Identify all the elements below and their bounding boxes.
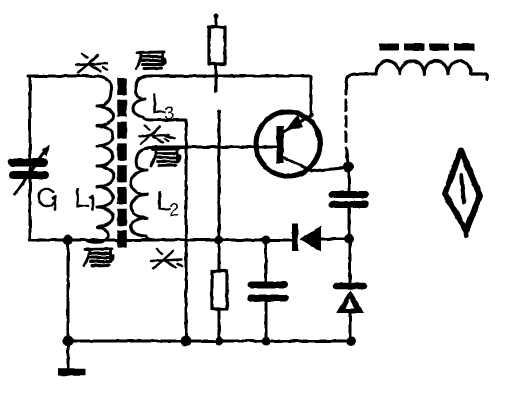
ferrite core (dashed bar) (117, 78, 127, 248)
label 头 (head) middle (139, 125, 175, 143)
earphone iron core (dashed bar) (379, 44, 474, 51)
label 尾 (tail) bottom (84, 249, 113, 266)
node junction at (68,240) (63, 235, 73, 245)
wire earphone corner to coil (346, 74, 376, 84)
diode D1 (detector, pointing left) cathode bar (292, 224, 298, 251)
inductor L2 (base coupling coil) (131, 147, 158, 240)
node junction at (266,240) (262, 236, 271, 245)
label 头 (head) top-left (76, 54, 107, 73)
label 头 (head) bottom (151, 250, 182, 269)
node junction at (219,240) (215, 236, 224, 245)
node junction at (348,167) (343, 162, 354, 173)
earphone diamond inner mark (461, 175, 464, 202)
resistor R2 (bottom) (218, 240, 221, 271)
capacitor C1 bottom plate (13, 171, 45, 179)
node junction at (186,341) (181, 336, 192, 347)
diode D2 (vertical) lead (349, 239, 352, 284)
capacitor C3 bottom plate (251, 295, 285, 302)
capacitor C1 (variable) top plate (12, 159, 44, 167)
wire top-left horizontal (28, 75, 98, 78)
wire mid rail (tank bottom to detector) (30, 239, 292, 242)
svg-text:2: 2 (169, 200, 179, 220)
transistor Q1 emitter (arrow toward base) (283, 115, 312, 132)
diode D2 triangle (pointing up) (336, 290, 364, 313)
wire C3 leads (265, 240, 268, 341)
earphone (crystal) diamond symbol (445, 150, 480, 231)
wire bottom rail (67, 340, 352, 343)
transistor Q1 base bar (277, 126, 284, 163)
capacitor C1 adjustment arrow (15, 148, 47, 194)
capacitor C2 (coupling) leads (348, 170, 351, 240)
node junction at (349,239) (344, 234, 354, 244)
wire top rail right (L3 to emitter) (160, 76, 311, 116)
wire ground branch vertical (67, 240, 70, 341)
wire D1 anode to node (321, 238, 346, 241)
diode D1 triangle (300, 226, 321, 252)
diode D2 cathode bar (336, 283, 364, 290)
wire left vertical (tank loop left side) (29, 76, 32, 240)
capacitor C2 top plate (332, 191, 365, 198)
node junction at (68,341) (63, 336, 74, 347)
ground symbol (67, 341, 70, 369)
earphone coil (inductor) (376, 61, 487, 79)
label 尾 (tail) middle (151, 149, 180, 166)
wire earphone dashed lead (345, 84, 348, 148)
node junction at (351,341) (346, 336, 356, 346)
inductor L1 (tank coil) (85, 76, 114, 242)
node junction at (266,341) (262, 337, 271, 346)
wire bias vertical (218, 111, 221, 240)
transistor Q1 collector (283, 157, 348, 171)
transistor Q1 (PNP) circle (256, 112, 320, 176)
svg-text:L: L (74, 182, 90, 213)
wire D2 anode to bottom rail (349, 313, 352, 341)
resistor R1 (top bias resistor) (214, 14, 219, 19)
label 尾 (tail) top (136, 52, 165, 69)
node junction at (219,341) (215, 337, 224, 346)
wire L3 tail lead to ground rail (150, 120, 186, 341)
wire base lead (152, 146, 277, 149)
capacitor C2 bottom plate (332, 201, 365, 208)
capacitor C3 (bottom bypass) top plate (251, 282, 285, 289)
inductor L3 (feedback coil) (133, 76, 160, 120)
